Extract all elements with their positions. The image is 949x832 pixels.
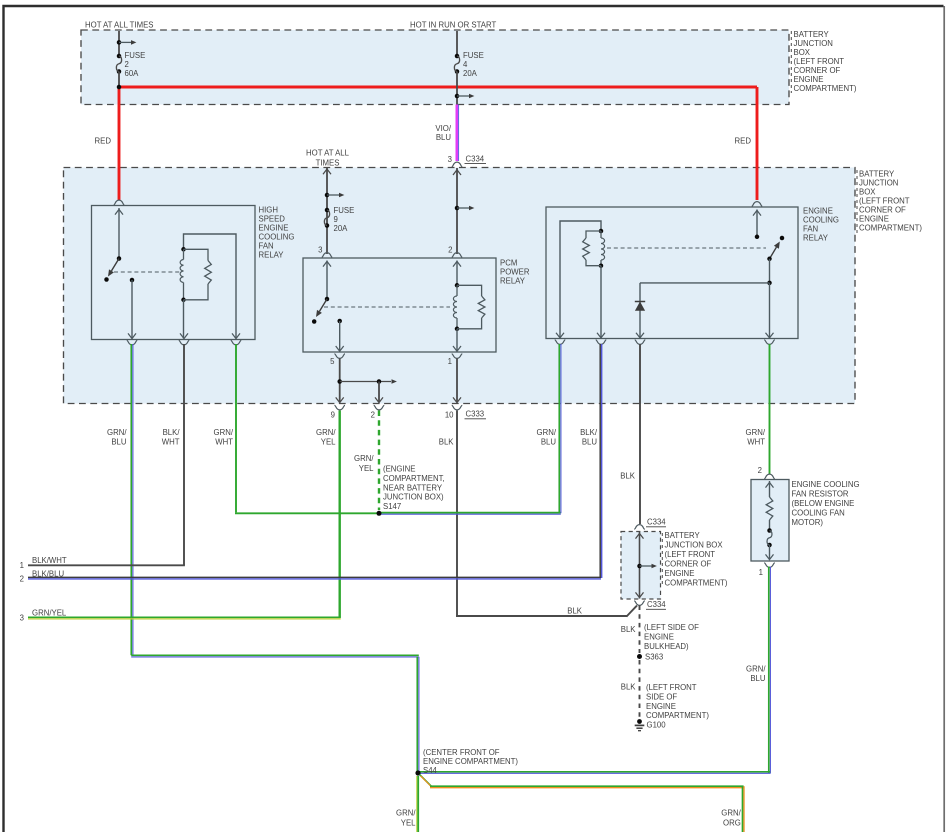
pcm relay coil inductor (456, 285, 458, 296)
pcm relay parallel resistor branch (457, 285, 482, 296)
svg-text:(ENGINE: (ENGINE (383, 465, 416, 474)
svg-text:GRN/: GRN/ (721, 808, 741, 817)
svg-text:COOLING: COOLING (803, 216, 839, 225)
svg-text:S147: S147 (383, 502, 401, 511)
svg-text:JUNCTION BOX): JUNCTION BOX) (383, 493, 444, 502)
svg-text:RELAY: RELAY (500, 277, 526, 286)
svg-text:(LEFT FRONT: (LEFT FRONT (794, 57, 845, 66)
relay K1 output contact dot + wire to bottom (130, 278, 135, 283)
pcm relay coil wire from pin 2 (456, 261, 458, 286)
svg-text:WHT: WHT (162, 437, 180, 446)
svg-text:COOLING FAN: COOLING FAN (792, 509, 845, 518)
small box right text rule (661, 533, 663, 587)
svg-text:(CENTER FRONT OF: (CENTER FRONT OF (423, 748, 500, 757)
svg-text:60A: 60A (125, 69, 140, 78)
svg-text:ENGINE: ENGINE (803, 207, 833, 216)
svg-text:C333: C333 (466, 410, 485, 419)
svg-text:TIMES: TIMES (316, 159, 340, 168)
svg-text:BOX: BOX (794, 48, 811, 57)
svg-text:9: 9 (334, 215, 338, 224)
top box right text rule (790, 31, 792, 93)
svg-text:BLK/WHT: BLK/WHT (32, 556, 67, 565)
wire GRN/BLU from high speed relay to S44 (130, 344, 132, 655)
relay K1 coil wire to bottom pin (183, 300, 185, 339)
pcm power relay box (303, 258, 496, 352)
branch arrow in small box (637, 564, 642, 569)
svg-text:2: 2 (448, 246, 452, 255)
svg-text:BATTERY: BATTERY (665, 531, 701, 540)
engine cooling fan relay box (546, 207, 798, 339)
battery junction box (top) dashed box (81, 30, 789, 105)
svg-text:COMPARTMENT): COMPARTMENT) (794, 84, 857, 93)
ground G100 symbol (637, 719, 642, 724)
svg-text:COOLING: COOLING (259, 233, 295, 242)
resistor pin 1 bump (764, 563, 775, 568)
svg-text:RED: RED (735, 137, 752, 146)
high speed engine cooling fan relay box (92, 206, 256, 340)
svg-text:9: 9 (331, 411, 335, 420)
junction + branch arrow on fuse 2 feed (117, 40, 122, 45)
ecf relay common node dot (767, 281, 772, 286)
svg-text:(LEFT FRONT: (LEFT FRONT (646, 683, 697, 692)
svg-text:RELAY: RELAY (259, 251, 285, 260)
svg-text:SPEED: SPEED (259, 215, 286, 224)
splice S44 (415, 770, 420, 775)
svg-text:SIDE OF: SIDE OF (646, 692, 677, 701)
svg-text:1: 1 (448, 357, 452, 366)
engine cooling fan resistor box (751, 480, 789, 562)
svg-text:YEL: YEL (359, 464, 374, 473)
svg-text:BLK: BLK (621, 625, 637, 634)
svg-text:5: 5 (330, 357, 335, 366)
ecf relay coil rail (560, 221, 601, 338)
svg-text:4: 4 (463, 60, 468, 69)
svg-text:MOTOR): MOTOR) (792, 518, 824, 527)
junction + branch arrow on fuse 9 feed (325, 193, 330, 198)
svg-text:ENGINE: ENGINE (665, 569, 695, 578)
svg-text:C334: C334 (647, 518, 666, 527)
svg-text:3: 3 (318, 246, 322, 255)
svg-text:GRN/: GRN/ (396, 808, 416, 817)
pcm relay pin 5 bump + label (334, 354, 345, 359)
pcm relay coil top node (455, 283, 460, 288)
svg-text:2: 2 (758, 466, 762, 475)
fuse F9 feed wire into box (326, 168, 328, 254)
svg-text:BLK/: BLK/ (580, 428, 598, 437)
svg-text:BLK: BLK (620, 472, 636, 481)
relay K1 coil top rail (184, 234, 237, 339)
ecf relay parallel resistor branch (586, 231, 601, 238)
wire BLK/WHT from high speed relay to connector 1 (183, 344, 185, 565)
branch junction to C333 pin 2 (377, 379, 382, 384)
svg-text:JUNCTION: JUNCTION (859, 179, 898, 188)
svg-text:BLU: BLU (750, 674, 766, 683)
svg-text:JUNCTION: JUNCTION (794, 39, 833, 48)
ecf relay coil inductor (600, 231, 602, 238)
svg-text:ENGINE: ENGINE (259, 224, 289, 233)
wire BLK from C333 pin 10 to C334 (456, 411, 458, 617)
wire RED horizontal bus (119, 86, 757, 89)
svg-text:CORNER OF: CORNER OF (665, 560, 712, 569)
relay K1 bottom pin bumps (127, 340, 138, 345)
svg-text:FAN RESISTOR: FAN RESISTOR (792, 490, 849, 499)
svg-text:C334: C334 (647, 600, 666, 609)
svg-text:POWER: POWER (500, 268, 530, 277)
svg-text:BOX: BOX (859, 188, 876, 197)
ecf relay top pin bump (red feed) (752, 202, 763, 207)
svg-text:20A: 20A (334, 224, 349, 233)
connector C334 bottom bump (634, 601, 645, 606)
wire RED left drop to high speed relay (118, 87, 121, 200)
connector C333 pin 2 bump (374, 405, 385, 410)
svg-text:BLU: BLU (436, 133, 452, 142)
svg-text:2: 2 (20, 575, 24, 584)
svg-text:ORG: ORG (723, 818, 741, 827)
svg-text:S363: S363 (645, 653, 663, 662)
svg-text:G100: G100 (647, 721, 667, 730)
svg-text:VIO/: VIO/ (435, 124, 451, 133)
wire BLK/BLU from ecf relay to connector 2 (599, 344, 601, 578)
wire C334 pin3 down to PCM relay pin 2 (456, 168, 458, 254)
svg-text:BLK/: BLK/ (163, 428, 181, 437)
relay K1 parallel resistor branch (184, 249, 209, 260)
ecf relay bottom pin bumps (555, 340, 566, 345)
pcm relay pin 1 bump + label (452, 354, 463, 359)
svg-text:2: 2 (125, 60, 129, 69)
wire BLK from ecf relay diode to C334 (639, 344, 641, 524)
svg-text:YEL: YEL (401, 818, 416, 827)
engine cooling fan resistor pin 2 bump (764, 474, 775, 479)
svg-text:BLK: BLK (567, 607, 583, 616)
diode D1 (635, 301, 645, 303)
battery junction box (small) dashed box (621, 532, 661, 600)
svg-text:3: 3 (448, 155, 452, 164)
pcm relay open contact dot (312, 319, 317, 324)
ecf relay switch arm (770, 247, 777, 259)
svg-text:RED: RED (95, 137, 112, 146)
pcm relay switch pivot (325, 297, 330, 302)
fuse F4 feed wire (456, 31, 458, 56)
wire fuse4 down with branch arrow (456, 72, 458, 105)
svg-text:ENGINE COMPARTMENT): ENGINE COMPARTMENT) (423, 757, 518, 766)
svg-text:CORNER OF: CORNER OF (859, 206, 906, 215)
connector C333 pin 10 bump (452, 405, 463, 410)
branch arrow inside box on pin2 wire (455, 206, 460, 211)
fuse F4 symbol (455, 54, 460, 59)
connector C334 top bump at small box (634, 525, 645, 530)
relay K1 right pin arrow (232, 333, 240, 338)
splice S147 (377, 511, 382, 516)
wire RED right drop to engine cooling fan relay (756, 87, 759, 200)
svg-text:WHT: WHT (747, 437, 765, 446)
fuse F2 symbol (117, 54, 122, 59)
svg-text:HIGH: HIGH (259, 206, 279, 215)
wire BLK dashed S363 to G100 (639, 660, 641, 719)
ecf relay input terminal dot (755, 235, 760, 240)
relay K1 switch arm (111, 259, 119, 271)
svg-text:COMPARTMENT): COMPARTMENT) (646, 711, 709, 720)
svg-text:COMPARTMENT): COMPARTMENT) (859, 224, 922, 233)
wire BLK dashed C334 to S363 (639, 606, 641, 654)
svg-text:HOT AT ALL: HOT AT ALL (306, 149, 350, 158)
ecf relay switch pivot (767, 257, 772, 262)
pcm relay output contact + wire to pin 5 (337, 319, 342, 324)
pcm relay switch arm (319, 299, 327, 311)
wire pcm pin1 to C333 pin 10 (456, 359, 458, 403)
wire GRN/WHT from high speed relay to splice S147 (235, 344, 237, 512)
relay K1 pin 30 bump (red feed) (114, 200, 125, 205)
svg-text:GRN/YEL: GRN/YEL (32, 609, 67, 618)
ecf relay dashed actuate line (607, 247, 766, 249)
svg-text:GRN/: GRN/ (316, 428, 336, 437)
svg-text:20A: 20A (463, 69, 478, 78)
ecf relay coil bottom node (599, 263, 604, 268)
svg-text:S44: S44 (423, 766, 438, 775)
svg-text:GRN/: GRN/ (354, 454, 374, 463)
svg-text:1: 1 (759, 568, 763, 577)
pcm relay coil bottom node (455, 327, 460, 332)
svg-text:ENGINE: ENGINE (644, 632, 674, 641)
svg-text:ENGINE: ENGINE (646, 702, 676, 711)
svg-text:HOT IN RUN OR START: HOT IN RUN OR START (410, 21, 496, 30)
ecf relay diode branch wire (639, 283, 641, 338)
svg-text:YEL: YEL (321, 437, 336, 446)
wire fuse2 to red junction (118, 72, 120, 88)
fuse F9 symbol (325, 208, 330, 213)
svg-text:(LEFT FRONT: (LEFT FRONT (665, 550, 716, 559)
wire GRN/YEL from C333 pin 9 to connector 3 (339, 411, 341, 618)
svg-text:BULKHEAD): BULKHEAD) (644, 642, 689, 651)
relay K1 input wire + arrow (118, 208, 120, 258)
branch junction on pin5 wire (337, 379, 342, 384)
svg-text:BLK: BLK (439, 437, 455, 446)
svg-text:2: 2 (371, 411, 375, 420)
svg-text:FAN: FAN (259, 242, 274, 251)
connector C334 pin 3 bump (452, 162, 463, 167)
fuse F2 feed wire (118, 31, 120, 56)
svg-text:10: 10 (445, 411, 454, 420)
svg-text:1: 1 (20, 561, 24, 570)
svg-text:ENGINE COOLING: ENGINE COOLING (792, 480, 860, 489)
svg-text:NEAR BATTERY: NEAR BATTERY (383, 483, 443, 492)
svg-text:FUSE: FUSE (125, 51, 146, 60)
pcm relay coil wire to pin 1 (456, 329, 458, 351)
svg-text:C334: C334 (466, 155, 485, 164)
svg-text:RELAY: RELAY (803, 234, 829, 243)
svg-text:BLU: BLU (541, 437, 557, 446)
wire GRN/BLU from resistor to S44 (768, 567, 770, 774)
ecf relay pivot to common node (769, 259, 771, 283)
wire GRN/YEL dashed from C333 pin 2 to S147 (378, 411, 380, 511)
relay K1 coil top node (181, 247, 186, 252)
relay K1 switch pivot (117, 256, 122, 261)
svg-text:HOT AT ALL TIMES: HOT AT ALL TIMES (85, 21, 153, 30)
relay K1 coil bottom node (181, 298, 186, 303)
svg-text:COMPARTMENT,: COMPARTMENT, (383, 474, 445, 483)
thermal fuse inside resistor (767, 528, 772, 533)
pcm relay dashed actuate line (324, 306, 450, 308)
svg-text:GRN/: GRN/ (537, 428, 557, 437)
wire pcm pin5 to C333 pin 9 with branch (339, 359, 341, 403)
ecf relay common rail to diode branch (640, 282, 770, 284)
svg-text:PCM: PCM (500, 259, 517, 268)
svg-text:ENGINE: ENGINE (859, 215, 889, 224)
relay K1 coil inductor (183, 249, 185, 259)
svg-text:FAN: FAN (803, 225, 818, 234)
svg-text:GRN/: GRN/ (746, 428, 766, 437)
svg-text:BLK: BLK (621, 683, 637, 692)
svg-text:FUSE: FUSE (334, 206, 355, 215)
svg-text:(BELOW ENGINE: (BELOW ENGINE (792, 499, 855, 508)
node red bus junction (117, 85, 122, 90)
svg-text:3: 3 (20, 614, 24, 623)
svg-text:WHT: WHT (215, 437, 233, 446)
wire VIO/BLU from fuse 4 (455, 105, 458, 162)
pcm relay pin 3 bump + label (322, 253, 333, 258)
wire GRN/BLU from S147 to ecf relay (378, 512, 561, 514)
svg-text:(LEFT SIDE OF: (LEFT SIDE OF (644, 623, 699, 632)
svg-text:GRN/: GRN/ (746, 665, 766, 674)
wire GRN/YEL below S44 (416, 776, 418, 832)
ecf relay common wire to bottom pin (769, 283, 771, 338)
svg-text:GRN/: GRN/ (107, 428, 127, 437)
ecf relay coil wire to bottom pin (600, 266, 602, 338)
svg-text:CORNER OF: CORNER OF (794, 66, 841, 75)
wire GRN/ORG from S44 to bottom (420, 775, 432, 787)
main box right text rule (856, 170, 858, 233)
svg-text:GRN/: GRN/ (214, 428, 234, 437)
relay K1 open contact dot (104, 277, 109, 282)
pcm relay pin 2 bump + label (452, 253, 463, 258)
svg-text:BATTERY: BATTERY (794, 30, 830, 39)
wire through small box (639, 532, 641, 599)
battery junction box (main) dashed box (64, 168, 856, 404)
ecf relay input wire + arrow (756, 210, 758, 237)
wire GRN/WHT from ecf relay to resistor (769, 344, 771, 474)
svg-text:FUSE: FUSE (463, 51, 484, 60)
splice S363 (637, 654, 642, 659)
svg-text:JUNCTION BOX: JUNCTION BOX (665, 541, 724, 550)
svg-text:(LEFT FRONT: (LEFT FRONT (859, 197, 910, 206)
connector C333 pin 9 bump (334, 405, 345, 410)
svg-text:BLU: BLU (111, 437, 127, 446)
ecf relay open contact dot (780, 236, 785, 241)
svg-text:ENGINE: ENGINE (794, 75, 824, 84)
svg-text:COMPARTMENT): COMPARTMENT) (665, 579, 728, 588)
ecf relay coil top node (599, 229, 604, 234)
svg-text:BLU: BLU (582, 437, 598, 446)
svg-text:BATTERY: BATTERY (859, 170, 895, 179)
resistor R1 internals (769, 481, 771, 497)
relay K1 dashed actuate line (114, 271, 180, 273)
pcm relay switch input wire (326, 261, 328, 300)
svg-text:BLK/BLU: BLK/BLU (32, 570, 64, 579)
